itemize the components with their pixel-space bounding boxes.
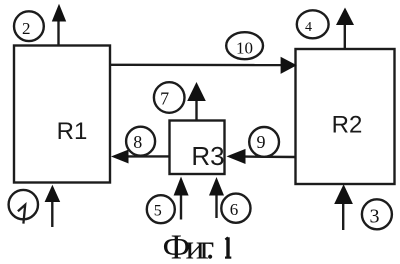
svg-text:R1: R1 xyxy=(57,118,88,145)
block R2 xyxy=(296,49,395,184)
block R3 xyxy=(170,121,225,175)
node label circle 6 xyxy=(221,194,250,223)
wire output arrow above R1 (net 2) xyxy=(52,4,66,47)
svg-text:5: 5 xyxy=(154,203,162,220)
node label ellipse 10 xyxy=(226,32,263,59)
svg-text:3: 3 xyxy=(370,205,380,227)
wire arrow R1 to R2 (net 10) xyxy=(110,57,297,74)
node label circle 9 xyxy=(249,127,279,157)
wire input arrow below R2 (net 3) xyxy=(334,184,353,230)
svg-text:6: 6 xyxy=(230,200,239,219)
wire input arrow below R3 right (net 6) xyxy=(209,177,224,218)
wire output arrow above R3 (net 7) xyxy=(187,82,206,121)
svg-text:8: 8 xyxy=(133,132,142,152)
node label circle 7 xyxy=(154,82,185,113)
svg-text:10: 10 xyxy=(236,39,253,58)
svg-text:R2: R2 xyxy=(332,112,363,139)
node label circle 5 xyxy=(147,195,175,223)
wire arrow R3 to R1 (net 8) xyxy=(111,150,170,164)
svg-text:R3: R3 xyxy=(191,141,224,171)
wire input arrow below R1 (net 1) xyxy=(45,185,61,227)
wire output arrow above R2 (net 4) xyxy=(336,8,354,49)
caption Фиг.1 xyxy=(163,228,232,264)
svg-text:2: 2 xyxy=(22,19,31,38)
svg-text:4: 4 xyxy=(305,20,312,35)
svg-text:9: 9 xyxy=(257,132,266,152)
svg-text:7: 7 xyxy=(160,88,169,108)
wire input arrow below R3 left (net 5) xyxy=(174,177,189,220)
node label circle 8 xyxy=(126,127,155,156)
wire arrow R2 to R3 (net 9) xyxy=(227,149,296,164)
node label circle 3 xyxy=(362,199,392,229)
node label circle 4 xyxy=(297,10,329,38)
node label circle 2 xyxy=(14,11,44,41)
block R1 xyxy=(14,46,110,183)
svg-text:Фиг.: Фиг. xyxy=(163,228,215,264)
node label circle 1 xyxy=(9,190,38,224)
